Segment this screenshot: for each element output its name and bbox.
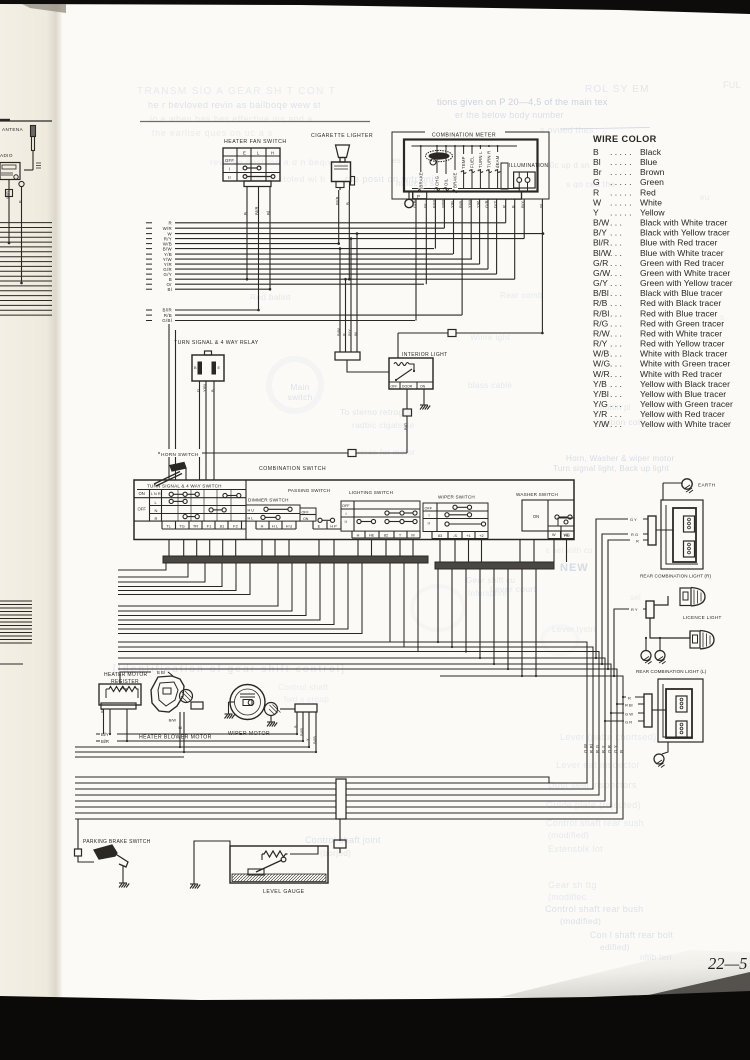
svg-text:Blue with Red tracer: Blue with Red tracer: [640, 238, 718, 248]
svg-text:tions given on P 20—4,5 of the: tions given on P 20—4,5 of the main tex: [437, 97, 608, 107]
svg-text:40c up d sn: 40c up d sn: [545, 161, 590, 170]
svg-text:W: W: [538, 204, 543, 208]
svg-text:Bl: Bl: [266, 211, 271, 215]
svg-text:. . .: . . .: [610, 218, 622, 228]
wire R main bus: [146, 222, 152, 224]
wire R/Y main bus: [146, 238, 152, 240]
svg-text:ht lucas st: ht lucas st: [396, 178, 437, 188]
wiper motor ground right: [270, 716, 272, 723]
wiper motor M2: [229, 685, 281, 720]
svg-text:G Y: G Y: [613, 745, 618, 753]
svg-text:COMBINATION SWITCH: COMBINATION SWITCH: [259, 466, 326, 472]
svg-text:Blue: Blue: [640, 157, 657, 167]
combination switch outer box: [134, 480, 574, 540]
wire B from cigarette lighter: [348, 190, 350, 279]
svg-text:Bl/R: Bl/R: [593, 238, 609, 248]
parking brake switch lever: [94, 845, 128, 883]
svg-text:. . .: . . .: [610, 389, 622, 399]
svg-text:R Bl: R Bl: [625, 703, 633, 708]
svg-text:LEVEL GAUGE: LEVEL GAUGE: [263, 889, 305, 895]
svg-text:Y/B: Y/B: [450, 201, 455, 208]
svg-text:B/W: B/W: [169, 718, 177, 723]
wire B main bus: [146, 278, 152, 280]
wire W/B main bus: [146, 243, 152, 245]
wiper motor ground left: [228, 702, 230, 714]
svg-text:G R: G R: [625, 720, 632, 725]
svg-text:sel: sel: [630, 593, 641, 602]
svg-text:. . . . .: . . . . .: [610, 157, 632, 167]
svg-text:switch: switch: [287, 392, 312, 402]
antenna mast symbol: [24, 126, 41, 171]
rear light R lamp lower: [684, 541, 695, 557]
wire Y/B main bus: [146, 253, 152, 255]
svg-text:BRAKE: BRAKE: [453, 172, 458, 188]
svg-text:. . .: . . .: [610, 288, 622, 298]
meter gauge lamp TURN R: [488, 146, 490, 189]
combination meter outer thin box: [392, 132, 549, 199]
radio box: [0, 163, 24, 187]
svg-text:W: W: [593, 197, 602, 207]
svg-text:WIRE COLOR: WIRE COLOR: [593, 134, 657, 144]
svg-text:Turn signal light, Back up lig: Turn signal light, Back up light: [553, 464, 670, 473]
svg-text:G/Bl: G/Bl: [162, 318, 172, 323]
svg-text:W/B: W/B: [335, 196, 340, 205]
svg-text:Yellow with Green tracer: Yellow with Green tracer: [640, 399, 733, 409]
svg-text:. . .: . . .: [610, 419, 622, 429]
svg-text:B/W: B/W: [163, 246, 173, 251]
svg-text:B: B: [593, 147, 599, 157]
svg-text:Yellow with Black tracer: Yellow with Black tracer: [640, 379, 730, 389]
svg-text:B/Bl: B/Bl: [593, 288, 609, 298]
wire R/G riser to rear combination light R: [602, 534, 648, 664]
svg-text:(modiflec: (modiflec: [548, 892, 587, 902]
svg-text:R: R: [169, 221, 172, 226]
svg-text:83: 83: [438, 534, 442, 538]
parking brake wire: [77, 819, 79, 849]
svg-text:II: II: [428, 522, 431, 526]
svg-text:R G: R G: [631, 532, 638, 537]
svg-text:(modified): (modified): [560, 916, 601, 926]
interior light feed wire + connector: [406, 389, 408, 409]
svg-text:B: B: [293, 725, 298, 728]
svg-text:. . .: . . .: [610, 328, 622, 338]
svg-text:B/Y: B/Y: [593, 228, 607, 238]
svg-text:CIGARETTE LIGHTER: CIGARETTE LIGHTER: [311, 133, 373, 139]
wire W/B from cigarette lighter: [338, 190, 340, 244]
svg-text:W/B: W/B: [5, 191, 10, 199]
svg-text:Lever eat insoector: Lever eat insoector: [556, 760, 640, 770]
svg-text:G: G: [196, 389, 201, 392]
svg-text:Bl/Y: Bl/Y: [101, 732, 109, 737]
wire Y/W from combination meter: [470, 199, 472, 259]
rear light L outer: [658, 679, 703, 742]
svg-text:blass cable: blass cable: [468, 381, 512, 390]
svg-text:H U: H U: [248, 509, 255, 513]
svg-text:. . . . .: . . . . .: [610, 177, 632, 187]
svg-text:OFF: OFF: [342, 504, 350, 508]
adjacent page top rule: [0, 120, 52, 122]
meter gauge lamp FUEL: [471, 146, 473, 189]
svg-text:HEATER FAN SWITCH: HEATER FAN SWITCH: [224, 139, 287, 145]
svg-text:Horn, Washer & wiper motor: Horn, Washer & wiper motor: [566, 454, 674, 463]
level gauge float arm: [256, 860, 282, 872]
svg-text:R/B: R/B: [164, 313, 172, 318]
level gauge ground wire: [194, 841, 230, 884]
svg-text:B: B: [18, 200, 23, 203]
meter connector strip: [413, 192, 522, 200]
svg-text:TURN SIGNAL & 4 WAY SWITCH: TURN SIGNAL & 4 WAY SWITCH: [147, 484, 222, 489]
svg-text:Y/R: Y/R: [476, 201, 481, 208]
meter trip knob circle: [430, 159, 436, 165]
wire G/R main bus: [146, 268, 152, 270]
svg-text:(borjed): (borjed): [320, 848, 351, 858]
svg-text:he r bevloved revin as bailbo: he r bevloved revin as bailboqe wew st: [148, 100, 321, 110]
svg-text:Yellow with Red tracer: Yellow with Red tracer: [640, 409, 725, 419]
meter gauge lamp dEAM: [497, 146, 499, 189]
svg-text:edified): edified): [600, 942, 630, 952]
rear light L lamp upper: [676, 696, 687, 712]
svg-text:B: B: [619, 750, 624, 753]
svg-text:. . .: . . .: [610, 268, 622, 278]
svg-text:H P: H P: [330, 524, 337, 528]
meter P cell: [413, 192, 427, 199]
svg-text:COMBINATION METER: COMBINATION METER: [432, 133, 496, 139]
wire G/Y main bus: [146, 273, 152, 275]
svg-text:Red balint: Red balint: [250, 292, 291, 302]
svg-text:G W: G W: [625, 712, 633, 717]
wire R from combination meter: [505, 199, 507, 223]
svg-text:82: 82: [384, 533, 388, 537]
svg-text:W/R: W/R: [163, 226, 172, 231]
wire Bl/R from heater fan switch: [258, 187, 260, 311]
svg-text:Black with White tracer: Black with White tracer: [640, 218, 728, 228]
svg-text:H: H: [261, 524, 264, 528]
wire B/W to interior light: [339, 249, 341, 352]
svg-text:es: es: [392, 156, 401, 165]
svg-text:HORN SWITCH: HORN SWITCH: [161, 452, 199, 458]
svg-text:Green: Green: [640, 177, 664, 187]
svg-text:LICENCE LIGHT: LICENCE LIGHT: [683, 615, 722, 620]
wire W to interior light / earth run: [398, 332, 542, 334]
svg-text:TG: TG: [179, 523, 185, 528]
svg-text:REAR COMBINATION LIGHT (L): REAR COMBINATION LIGHT (L): [636, 669, 707, 674]
interior light L1 box: [389, 358, 433, 389]
svg-text:Inforsphre: Inforsphre: [468, 589, 507, 598]
svg-text:TURN R: TURN R: [487, 151, 492, 168]
rear light R lamp upper: [684, 516, 695, 532]
svg-text:HEATER BLOWER MOTOR: HEATER BLOWER MOTOR: [139, 735, 212, 741]
svg-text:Red with Black tracer: Red with Black tracer: [640, 298, 721, 308]
svg-text:W: W: [552, 533, 556, 537]
wire R/Y to interior light: [350, 239, 352, 352]
svg-text:. . .: . . .: [610, 349, 622, 359]
svg-text:BRAKE: BRAKE: [418, 172, 423, 188]
relay K1 box: [192, 355, 224, 381]
svg-text:H U: H U: [286, 524, 293, 528]
svg-text:Black with Blue tracer: Black with Blue tracer: [640, 288, 723, 298]
svg-text:H L: H L: [272, 524, 278, 528]
meter bottom rail: [412, 188, 520, 190]
svg-text:-S: -S: [453, 534, 457, 538]
svg-text:WIPER SWITCH: WIPER SWITCH: [438, 495, 475, 500]
svg-text:R: R: [628, 696, 631, 701]
rear light L earth: [662, 742, 668, 754]
meter gauge lamp TURN L: [479, 146, 481, 189]
level gauge feed from harness: [339, 819, 341, 841]
meter gauge lamp OIL: [445, 146, 447, 189]
svg-text:Bl: Bl: [167, 287, 172, 292]
svg-text:EARTH: EARTH: [698, 483, 716, 488]
svg-text:TRANSM SlO A GEAR SH T CON: TRANSM SlO A GEAR SH T CON T: [137, 86, 336, 97]
svg-text:B/W: B/W: [431, 200, 436, 208]
wire R riser to rear combination light R: [608, 540, 648, 669]
svg-text:. . .: . . .: [610, 298, 622, 308]
svg-text:. . . . .: . . . . .: [610, 167, 632, 177]
svg-text:Y: Y: [593, 208, 599, 218]
wire W from combination meter: [541, 199, 543, 333]
svg-text:81: 81: [220, 523, 225, 528]
svg-text:Green with White tracer: Green with White tracer: [640, 268, 730, 278]
wire Y/W main bus: [146, 258, 152, 260]
svg-text:dEAM: dEAM: [495, 155, 500, 168]
svg-text:Black with Yellow tracer: Black with Yellow tracer: [640, 228, 730, 238]
svg-text:OFF: OFF: [391, 384, 398, 388]
svg-text:nltib teri: nltib teri: [640, 953, 672, 962]
svg-text:fhe earlise ques on uc a: fhe earlise ques on uc a s: [152, 128, 273, 138]
svg-text:OFF: OFF: [302, 510, 310, 514]
svg-text:. . . . .: . . . . .: [610, 197, 632, 207]
meter empty cell: [501, 163, 508, 189]
svg-text:G W: G W: [583, 743, 588, 753]
meter gauge lamp BRAKE: [454, 146, 456, 189]
svg-text:G: G: [593, 177, 600, 187]
svg-text:. . .: . . .: [610, 238, 622, 248]
svg-text:Red: Red: [640, 187, 656, 197]
svg-text:TR: TR: [193, 523, 198, 528]
svg-text:lo e when has bes effective: lo e when has bes effective ins and a: [150, 114, 313, 124]
svg-text:Lever (patte chortsed): Lever (patte chortsed): [560, 732, 656, 742]
svg-text:Y/R: Y/R: [593, 409, 607, 419]
wire horn/interior run: [158, 452, 407, 454]
svg-text:OFF: OFF: [138, 507, 147, 512]
svg-text:Bl: Bl: [179, 725, 183, 730]
svg-text:Con l shaft rear bolt: Con l shaft rear bolt: [590, 930, 673, 940]
wire color legend rows: [593, 147, 733, 429]
svg-text:H: H: [357, 533, 360, 537]
wire W/R main bus: [146, 227, 152, 229]
svg-text:s ovued thes: s ovued thes: [540, 125, 594, 135]
svg-text:s qo ced the: s qo ced the: [566, 179, 615, 189]
svg-text:. . .: . . .: [610, 369, 622, 379]
svg-text:G/Y: G/Y: [493, 200, 498, 208]
svg-text:OIL: OIL: [444, 178, 449, 186]
svg-text:R/W: R/W: [593, 328, 611, 338]
svg-text:H: H: [271, 151, 274, 156]
heater blower motor M1: [151, 676, 193, 712]
svg-text:DOOR: DOOR: [402, 384, 413, 388]
svg-text:Rear comb: Rear comb: [500, 291, 543, 300]
svg-text:B: B: [243, 212, 248, 215]
wiper wires B, Bl/R, Y, Bl/B: [296, 712, 298, 734]
wire B to interior light: [345, 279, 347, 352]
svg-text:Bl/R: Bl/R: [101, 739, 109, 744]
svg-text:ON: ON: [303, 517, 309, 521]
interior light connector block: [335, 352, 360, 360]
svg-text:ILLUMINATION: ILLUMINATION: [509, 163, 548, 169]
svg-text:. . . . .: . . . . .: [610, 147, 632, 157]
svg-text:R/Y: R/Y: [520, 201, 525, 208]
svg-text:Yellow with White tracer: Yellow with White tracer: [640, 419, 731, 429]
svg-text:Y/G: Y/G: [593, 399, 608, 409]
svg-text:Blue with White tracer: Blue with White tracer: [640, 248, 724, 258]
svg-text:OFF: OFF: [425, 506, 433, 510]
svg-text:G Y: G Y: [630, 517, 637, 522]
svg-text:R Y: R Y: [601, 745, 606, 753]
svg-text:HU: HU: [564, 534, 570, 538]
wire R/Y from combination meter: [523, 199, 525, 239]
adjacent page bus wires: [0, 223, 52, 664]
svg-text:. . .: . . .: [610, 228, 622, 238]
rear light L connector: [644, 694, 652, 727]
svg-text:PARKING BRAKE SWITCH: PARKING BRAKE SWITCH: [83, 839, 151, 845]
svg-text:B/G: B/G: [403, 423, 408, 431]
svg-text:er the below body number: er the below body number: [455, 110, 564, 120]
svg-text:Y/Bl: Y/Bl: [202, 384, 207, 392]
svg-text:I: I: [346, 512, 347, 516]
svg-text:22—5: 22—5: [708, 954, 747, 973]
svg-text:OFF: OFF: [225, 158, 234, 163]
svg-text:Gear sh ttg: Gear sh ttg: [548, 880, 597, 890]
svg-text:B/W: B/W: [336, 328, 341, 336]
register wire to Bl/Y: [109, 709, 111, 734]
register wire Bl: [103, 709, 105, 734]
svg-text:White: White: [640, 197, 662, 207]
svg-text:Main: Main: [290, 382, 309, 392]
svg-text:White with Green tracer: White with Green tracer: [640, 359, 730, 369]
turn switch contacts: [169, 492, 241, 519]
wire B/Bl register to blower: [120, 672, 151, 684]
top scanner bar: [0, 0, 750, 14]
wire B/W from combination meter: [434, 199, 436, 249]
licence light bulb upper: [654, 588, 705, 607]
wire B from radio: [21, 187, 23, 283]
svg-text:FUEL: FUEL: [470, 156, 475, 168]
svg-text:W/G: W/G: [593, 359, 610, 369]
blower wire B/W: [179, 712, 181, 747]
svg-text:R Bl: R Bl: [589, 744, 594, 753]
svg-text:L: L: [257, 151, 260, 156]
svg-text:. . . . .: . . . . .: [610, 208, 632, 218]
svg-text:. . .: . . .: [610, 359, 622, 369]
svg-text:. . .: . . .: [610, 258, 622, 268]
svg-text:B/W: B/W: [593, 218, 610, 228]
svg-text:INTERIOR LIGHT: INTERIOR LIGHT: [402, 352, 448, 358]
svg-text:TURN L: TURN L: [478, 151, 483, 168]
earth terminal: [682, 479, 692, 489]
svg-text:B: B: [194, 366, 197, 370]
heater fan switch connector: [244, 181, 271, 187]
svg-text:E: E: [218, 366, 221, 370]
svg-text:ON: ON: [139, 491, 145, 496]
wire G/Bl main bus: [146, 320, 152, 322]
svg-text:G/Bl: G/Bl: [412, 199, 417, 208]
svg-text:Y/W: Y/W: [593, 419, 610, 429]
svg-text:Y/Bl: Y/Bl: [593, 389, 609, 399]
wire R/B main bus: [146, 314, 152, 316]
rear light L lamp lower: [676, 721, 687, 737]
svg-text:II: II: [345, 520, 348, 524]
wire Y/R main bus: [146, 263, 152, 265]
wire W/B from radio: [8, 180, 10, 243]
svg-text:B: B: [511, 205, 516, 208]
washer switch section: [514, 489, 566, 497]
svg-text:Extensblk lot: Extensblk lot: [548, 844, 603, 854]
svg-text:Lever tystrl: Lever tystrl: [552, 625, 596, 634]
svg-text:R G: R G: [595, 744, 600, 753]
svg-text:ON: ON: [420, 384, 426, 388]
wire B/W main bus: [146, 248, 152, 250]
svg-text:DIMMER SWITCH: DIMMER SWITCH: [248, 498, 289, 503]
meter inner top rail: [412, 145, 518, 147]
earth wire: [663, 482, 682, 484]
cigarette lighter symbol: [332, 145, 355, 190]
svg-text:(modified): (modified): [548, 830, 589, 840]
svg-text:Whire ight: Whire ight: [470, 333, 510, 342]
svg-text:B: B: [210, 389, 215, 392]
svg-text:FUL: FUL: [723, 80, 741, 90]
level gauge G1 box: [230, 846, 328, 883]
wire Bl from heater fan switch: [269, 187, 271, 290]
svg-text:. . . . .: . . . . .: [610, 187, 632, 197]
svg-text:. . .: . . .: [610, 339, 622, 349]
svg-text:Y/B: Y/B: [593, 379, 607, 389]
svg-text:PASSING SWITCH: PASSING SWITCH: [288, 488, 330, 493]
svg-text:B: B: [342, 333, 347, 336]
licence light bulb lower: [650, 618, 714, 649]
svg-text:M: M: [411, 533, 414, 537]
svg-text:Red with Blue tracer: Red with Blue tracer: [640, 308, 718, 318]
svg-text:B Bl: B Bl: [157, 670, 165, 675]
svg-text:Brown: Brown: [640, 167, 665, 177]
connector bar (right harness): [435, 562, 554, 569]
svg-text:. . .: . . .: [610, 248, 622, 258]
svg-text:G/R: G/R: [484, 200, 489, 208]
svg-text:Bl: Bl: [593, 157, 601, 167]
svg-text:TL: TL: [166, 523, 171, 528]
svg-text:E: E: [243, 151, 246, 156]
svg-text:I: I: [229, 167, 230, 172]
svg-text:G/R: G/R: [593, 258, 608, 268]
svg-text:Yellow with Blue tracer: Yellow with Blue tracer: [640, 389, 726, 399]
wire W/R from combination meter: [443, 199, 445, 228]
svg-text:Red with Green tracer: Red with Green tracer: [640, 318, 724, 328]
svg-text:W/R: W/R: [440, 200, 445, 208]
speedometer cable connector: [405, 199, 413, 207]
wire Y/R from combination meter: [479, 199, 481, 264]
svg-text:R/G: R/G: [593, 318, 609, 328]
svg-text:B: B: [345, 202, 350, 205]
svg-text:W/R: W/R: [593, 369, 610, 379]
register wire to Bl/R: [126, 709, 128, 741]
svg-text:NEW: NEW: [560, 562, 589, 574]
svg-text:REAR COMBINATION LIGHT (R): REAR COMBINATION LIGHT (R): [640, 574, 711, 579]
svg-text:ANTENA: ANTENA: [2, 127, 24, 132]
svg-text:LIGHTING SWITCH: LIGHTING SWITCH: [349, 490, 393, 495]
svg-text:Bl/B: Bl/B: [312, 736, 317, 744]
svg-text:+2: +2: [479, 534, 483, 538]
svg-text:HE: HE: [369, 533, 375, 537]
wire G/Y riser to rear combination light R: [596, 519, 648, 658]
